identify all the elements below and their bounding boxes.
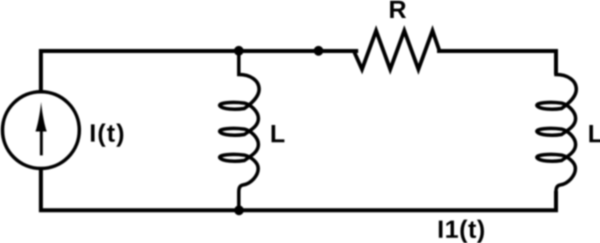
value label L (middle inductor) bbox=[272, 125, 285, 142]
label I(t) (source current) bbox=[91, 123, 123, 146]
current source arrow bbox=[36, 102, 47, 132]
value label R (resistor) bbox=[390, 1, 406, 18]
inductor L1 (middle branch) bbox=[220, 51, 259, 210]
value label L (right inductor) bbox=[589, 125, 600, 142]
inductor L2 (right branch) bbox=[537, 51, 576, 210]
junction dot: top node at middle inductor bbox=[234, 46, 244, 56]
resistor R bbox=[354, 31, 440, 70]
wire top-right: resistor to right branch bbox=[437, 51, 556, 75]
label I1(t) (bottom branch current) bbox=[439, 220, 484, 243]
current source I1 body circle I(t) bbox=[3, 92, 80, 169]
wire bottom rail bbox=[41, 169, 556, 211]
wire top-left: source to resistor bbox=[41, 51, 358, 92]
junction dot: bottom node at middle inductor bbox=[234, 205, 244, 215]
junction dot: top node before resistor bbox=[314, 46, 324, 56]
